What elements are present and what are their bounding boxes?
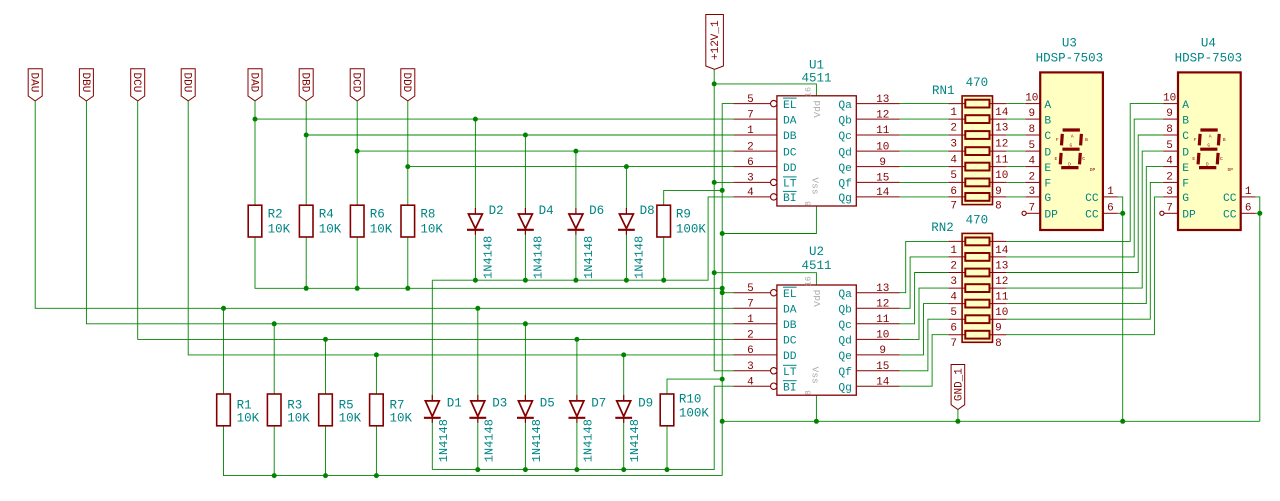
svg-text:A: A bbox=[1044, 100, 1051, 112]
svg-text:R7: R7 bbox=[390, 399, 405, 413]
wires RN2 to U4 bbox=[1006, 104, 1163, 335]
RN1 resistor element pins 2/13 bbox=[948, 115, 1008, 134]
svg-text:D: D bbox=[1182, 147, 1189, 159]
svg-text:5: 5 bbox=[747, 283, 754, 295]
svg-text:A: A bbox=[1071, 134, 1074, 140]
svg-text:Vss: Vss bbox=[809, 177, 820, 194]
svg-text:D2: D2 bbox=[489, 204, 504, 218]
diode D1 1N4148 bbox=[424, 395, 462, 462]
resistor R4 10K bbox=[299, 205, 341, 237]
resistor network RN1 470 bbox=[932, 76, 1009, 212]
svg-text:Qe: Qe bbox=[838, 351, 852, 363]
svg-text:1N4148: 1N4148 bbox=[581, 419, 595, 462]
svg-text:C: C bbox=[1044, 131, 1051, 143]
svg-text:DAD: DAD bbox=[247, 72, 259, 92]
resistor R1 10K bbox=[217, 394, 260, 426]
U4 pin 7 (DP) bbox=[1160, 202, 1196, 221]
svg-text:5: 5 bbox=[950, 170, 957, 182]
svg-text:7: 7 bbox=[950, 338, 957, 350]
svg-text:10: 10 bbox=[1025, 93, 1038, 105]
U1 pin 11 (Qc) bbox=[838, 125, 899, 143]
RN1 resistor element pins 7/8 bbox=[948, 193, 1006, 212]
U2 pin 4 (BI) bbox=[733, 376, 796, 394]
diode D7 1N4148 bbox=[569, 395, 607, 462]
svg-text:4: 4 bbox=[950, 155, 957, 167]
svg-text:9: 9 bbox=[995, 323, 1002, 335]
RN1 resistor element pins 6/9 bbox=[948, 179, 1006, 198]
global label DDD bbox=[400, 69, 415, 101]
svg-text:DP: DP bbox=[1044, 210, 1058, 222]
svg-text:16: 16 bbox=[804, 87, 814, 97]
svg-text:LT: LT bbox=[783, 367, 797, 379]
svg-text:6: 6 bbox=[1245, 202, 1252, 214]
wire net +12V bbox=[712, 69, 817, 370]
svg-text:8: 8 bbox=[995, 338, 1002, 350]
RN2 resistor element pins 2/13 bbox=[948, 253, 1008, 272]
svg-text:11: 11 bbox=[876, 125, 890, 137]
U4 pin 1 (CC) bbox=[1223, 186, 1256, 205]
U1 pin 10 (Qd) bbox=[838, 141, 899, 159]
RN1 resistor element pins 1/14 bbox=[948, 100, 1008, 119]
wire net DBU bbox=[86, 101, 733, 324]
svg-text:Qc: Qc bbox=[838, 131, 852, 143]
U2 pin 7 (DA) bbox=[733, 299, 796, 317]
svg-text:C: C bbox=[1220, 156, 1223, 162]
resistor R5 10K bbox=[319, 394, 362, 426]
svg-text:DP: DP bbox=[1182, 210, 1196, 222]
svg-text:1N4148: 1N4148 bbox=[482, 419, 496, 462]
U1 pin 3 (LT) bbox=[733, 173, 796, 191]
display U4 HDSP-7503 bbox=[1160, 37, 1256, 231]
svg-text:100K: 100K bbox=[676, 223, 707, 237]
RN2 resistor element pins 5/10 bbox=[948, 300, 1008, 319]
svg-text:9: 9 bbox=[879, 157, 886, 169]
U2 pin 5 (EL) bbox=[733, 283, 796, 301]
svg-text:U2: U2 bbox=[809, 245, 824, 259]
svg-text:15: 15 bbox=[876, 361, 889, 373]
svg-text:EL: EL bbox=[783, 289, 797, 301]
svg-text:D: D bbox=[1044, 147, 1051, 159]
resistor network RN2 470 bbox=[931, 214, 1008, 351]
RN2 resistor element pins 4/11 bbox=[948, 284, 1008, 303]
U3 pin 3 (G) bbox=[1025, 186, 1051, 205]
svg-text:Qa: Qa bbox=[838, 100, 852, 112]
svg-text:7: 7 bbox=[747, 109, 754, 121]
svg-text:6: 6 bbox=[950, 323, 957, 335]
svg-text:2: 2 bbox=[1166, 171, 1173, 183]
diode D3 1N4148 bbox=[469, 395, 507, 462]
diode D4 1N4148 bbox=[517, 204, 554, 279]
svg-text:D5: D5 bbox=[540, 397, 555, 411]
U3 pin 8 (C) bbox=[1025, 124, 1051, 143]
svg-text:4511: 4511 bbox=[801, 71, 831, 85]
U1 pin 2 (DC) bbox=[733, 141, 796, 159]
svg-text:C: C bbox=[1082, 156, 1085, 162]
svg-text:DCD: DCD bbox=[350, 72, 362, 92]
RN2 resistor element pins 1/14 bbox=[948, 238, 1008, 257]
U4 pin 5 (D) bbox=[1163, 140, 1189, 159]
svg-text:R2: R2 bbox=[268, 207, 283, 221]
svg-text:B: B bbox=[1223, 137, 1226, 143]
U1 pin 6 (DD) bbox=[733, 157, 796, 175]
svg-text:6: 6 bbox=[950, 186, 957, 198]
svg-text:Qd: Qd bbox=[838, 336, 852, 348]
global label DBU bbox=[79, 69, 94, 101]
wire U3 CC to GND bbox=[1118, 197, 1125, 421]
svg-text:DP: DP bbox=[1090, 167, 1096, 173]
wire U1 Vss to rail bbox=[722, 206, 816, 234]
display U3 HDSP-7503 bbox=[1022, 37, 1118, 231]
svg-text:GND_1: GND_1 bbox=[954, 368, 966, 401]
svg-text:G: G bbox=[1207, 142, 1210, 148]
svg-text:Qd: Qd bbox=[838, 147, 852, 159]
U4 7-segment digit bbox=[1192, 130, 1233, 173]
svg-text:8: 8 bbox=[995, 200, 1002, 212]
svg-text:G: G bbox=[1044, 193, 1051, 205]
svg-text:2: 2 bbox=[950, 123, 957, 135]
svg-text:F: F bbox=[1194, 137, 1197, 143]
svg-text:13: 13 bbox=[995, 123, 1008, 135]
svg-text:4511: 4511 bbox=[801, 259, 831, 273]
svg-text:1N4148: 1N4148 bbox=[632, 236, 646, 279]
global label DBD bbox=[299, 69, 314, 101]
wire U4 CC to GND bbox=[1256, 197, 1263, 421]
svg-text:Vss: Vss bbox=[809, 367, 820, 384]
wire net DCD bbox=[355, 101, 734, 206]
svg-text:C: C bbox=[1182, 131, 1189, 143]
svg-text:10K: 10K bbox=[237, 412, 260, 426]
svg-text:B: B bbox=[1044, 115, 1051, 127]
svg-text:G: G bbox=[1070, 142, 1073, 148]
svg-text:4: 4 bbox=[1028, 156, 1035, 168]
svg-text:15: 15 bbox=[876, 173, 889, 185]
svg-text:Vdd: Vdd bbox=[812, 100, 823, 117]
svg-text:4: 4 bbox=[747, 187, 754, 199]
svg-text:11: 11 bbox=[876, 314, 890, 326]
svg-text:8: 8 bbox=[1028, 124, 1035, 136]
svg-text:4: 4 bbox=[950, 292, 957, 304]
svg-text:R6: R6 bbox=[370, 207, 385, 221]
svg-text:2: 2 bbox=[747, 141, 754, 153]
svg-text:E: E bbox=[1055, 156, 1058, 162]
svg-text:4: 4 bbox=[1166, 156, 1173, 168]
svg-text:14: 14 bbox=[995, 245, 1009, 257]
svg-text:7: 7 bbox=[1028, 202, 1035, 214]
U4 pin 8 (C) bbox=[1163, 124, 1189, 143]
svg-text:7: 7 bbox=[1166, 202, 1173, 214]
U4 pin 10 (A) bbox=[1163, 93, 1189, 112]
svg-text:Qb: Qb bbox=[838, 305, 852, 317]
wires U1 outputs to RN1 bbox=[900, 104, 949, 197]
svg-text:D: D bbox=[1068, 161, 1071, 167]
svg-text:5: 5 bbox=[1028, 140, 1035, 152]
svg-text:LT: LT bbox=[783, 179, 797, 191]
wire R1/R3/R5/R7 tops bbox=[221, 306, 379, 394]
svg-text:11: 11 bbox=[995, 292, 1009, 304]
U2 pin 14 (Qg) bbox=[838, 376, 899, 394]
U2 pin 9 (Qe) bbox=[838, 345, 899, 363]
wire net DBD bbox=[304, 101, 734, 206]
svg-text:16: 16 bbox=[804, 276, 814, 286]
svg-text:DAU: DAU bbox=[28, 72, 40, 92]
svg-text:HDSP-7503: HDSP-7503 bbox=[1036, 52, 1104, 66]
diode D2 1N4148 bbox=[467, 204, 504, 279]
svg-text:A: A bbox=[1182, 100, 1189, 112]
svg-text:12: 12 bbox=[876, 109, 889, 121]
RN1 resistor element pins 3/12 bbox=[948, 131, 1008, 150]
svg-text:A: A bbox=[1209, 134, 1212, 140]
RN1 resistor element pins 4/11 bbox=[948, 147, 1008, 166]
RN2 resistor element pins 7/8 bbox=[948, 331, 1006, 350]
U3 pin 5 (D) bbox=[1025, 140, 1051, 159]
U3 pin 9 (B) bbox=[1025, 108, 1051, 127]
svg-text:DD: DD bbox=[783, 351, 797, 363]
wire GND net bbox=[722, 395, 1260, 424]
svg-text:5: 5 bbox=[950, 307, 957, 319]
svg-text:5: 5 bbox=[1166, 140, 1173, 152]
svg-text:G: G bbox=[1182, 193, 1189, 205]
svg-text:BI: BI bbox=[783, 193, 797, 205]
wire D1 column bbox=[431, 280, 433, 469]
U2 pin 10 (Qd) bbox=[838, 330, 899, 348]
svg-text:14: 14 bbox=[876, 187, 890, 199]
svg-text:DBD: DBD bbox=[299, 72, 311, 92]
resistor R10 100K bbox=[660, 393, 709, 426]
svg-text:3: 3 bbox=[1166, 186, 1173, 198]
svg-text:D9: D9 bbox=[638, 397, 653, 411]
svg-text:+12V_1: +12V_1 bbox=[710, 20, 722, 60]
svg-text:2: 2 bbox=[950, 260, 957, 272]
svg-text:4: 4 bbox=[747, 376, 754, 388]
svg-text:10K: 10K bbox=[370, 223, 393, 237]
resistor R8 10K bbox=[401, 205, 443, 237]
svg-text:6: 6 bbox=[747, 345, 754, 357]
svg-text:1N4148: 1N4148 bbox=[437, 419, 451, 462]
wire D2-D8 bottoms / U1 BI bbox=[432, 197, 733, 283]
U1 pin 12 (Qb) bbox=[838, 109, 899, 127]
U2 pin 13 (Qa) bbox=[838, 283, 899, 301]
wire R1-R7 bottoms rail bbox=[224, 426, 723, 478]
wire R10 top bbox=[667, 379, 722, 394]
svg-text:2: 2 bbox=[1028, 171, 1035, 183]
U3 pin 1 (CC) bbox=[1085, 186, 1118, 205]
U4 pin 6 (CC) bbox=[1223, 202, 1256, 221]
U4 pin 4 (E) bbox=[1163, 156, 1189, 175]
U3 pin 2 (F) bbox=[1025, 171, 1051, 190]
global label DAD bbox=[247, 69, 262, 101]
U2 pin 15 (Qf) bbox=[838, 361, 899, 379]
wire D2/D4/D6/D8 columns bbox=[475, 119, 626, 280]
wires RN1 to U3 bbox=[1006, 104, 1025, 197]
svg-text:DB: DB bbox=[783, 320, 797, 332]
svg-text:E: E bbox=[1044, 163, 1051, 175]
svg-text:9: 9 bbox=[1028, 108, 1035, 120]
svg-text:1: 1 bbox=[950, 107, 957, 119]
svg-text:10K: 10K bbox=[390, 412, 413, 426]
svg-text:7: 7 bbox=[950, 200, 957, 212]
global label DCD bbox=[350, 69, 365, 101]
power label GND_1 bbox=[951, 365, 965, 410]
svg-text:12: 12 bbox=[876, 299, 889, 311]
svg-text:F: F bbox=[1044, 179, 1051, 191]
svg-text:U4: U4 bbox=[1201, 37, 1216, 51]
U3 pin 4 (E) bbox=[1025, 156, 1051, 175]
global label DCU bbox=[130, 69, 145, 101]
svg-text:8: 8 bbox=[804, 390, 814, 395]
svg-text:D1: D1 bbox=[447, 397, 462, 411]
U3 pin 7 (DP) bbox=[1022, 202, 1058, 221]
diode D9 1N4148 bbox=[615, 395, 653, 462]
svg-text:DBU: DBU bbox=[79, 72, 91, 92]
svg-text:B: B bbox=[1182, 115, 1189, 127]
U1 pin 15 (Qf) bbox=[838, 173, 899, 191]
IC U1 4511 bbox=[733, 59, 899, 206]
wire net DCU bbox=[138, 101, 734, 340]
wire D3-D9 bottoms / U2 BI bbox=[432, 386, 733, 472]
svg-text:Qf: Qf bbox=[838, 179, 852, 191]
svg-text:3: 3 bbox=[747, 173, 754, 185]
svg-text:Qb: Qb bbox=[838, 115, 852, 127]
wire net EL/BI/VSS rail bbox=[720, 104, 734, 476]
svg-text:D8: D8 bbox=[640, 204, 655, 218]
svg-text:Qf: Qf bbox=[838, 367, 852, 379]
svg-text:14: 14 bbox=[876, 376, 890, 388]
svg-text:DD: DD bbox=[783, 163, 797, 175]
svg-text:Vdd: Vdd bbox=[812, 290, 823, 307]
svg-text:D4: D4 bbox=[539, 204, 554, 218]
svg-text:F: F bbox=[1056, 137, 1059, 143]
U1 pin 1 (DB) bbox=[733, 125, 796, 143]
svg-text:10K: 10K bbox=[268, 223, 291, 237]
U3 pin 6 (CC) bbox=[1085, 202, 1118, 221]
svg-text:10: 10 bbox=[995, 307, 1008, 319]
wire net DAD bbox=[253, 101, 734, 206]
RN2 resistor element pins 3/12 bbox=[948, 269, 1008, 288]
U4 pin 2 (F) bbox=[1163, 171, 1189, 190]
svg-text:1N4148: 1N4148 bbox=[531, 236, 545, 279]
global label DAU bbox=[28, 69, 43, 101]
svg-text:D3: D3 bbox=[492, 397, 507, 411]
svg-text:9: 9 bbox=[879, 345, 886, 357]
svg-text:HDSP-7503: HDSP-7503 bbox=[1175, 52, 1243, 66]
U2 pin 3 (LT) bbox=[733, 361, 796, 379]
svg-text:B: B bbox=[1085, 137, 1088, 143]
svg-text:F: F bbox=[1182, 179, 1189, 191]
svg-text:Qg: Qg bbox=[838, 193, 852, 205]
svg-text:RN1: RN1 bbox=[932, 84, 955, 98]
svg-text:1: 1 bbox=[1245, 186, 1252, 198]
svg-text:DCU: DCU bbox=[130, 72, 142, 92]
svg-text:12: 12 bbox=[995, 276, 1008, 288]
svg-text:DDU: DDU bbox=[181, 72, 193, 92]
svg-text:D: D bbox=[1206, 161, 1209, 167]
svg-text:R5: R5 bbox=[339, 399, 354, 413]
U2 pin 12 (Qb) bbox=[838, 299, 899, 317]
svg-text:8: 8 bbox=[804, 201, 814, 206]
svg-text:EL: EL bbox=[783, 100, 797, 112]
svg-text:R9: R9 bbox=[676, 207, 691, 221]
svg-text:10K: 10K bbox=[339, 412, 362, 426]
svg-text:11: 11 bbox=[995, 155, 1009, 167]
svg-text:CC: CC bbox=[1223, 193, 1237, 205]
U1 pin 7 (DA) bbox=[733, 109, 796, 127]
svg-text:1: 1 bbox=[950, 245, 957, 257]
RN1 resistor element pins 5/10 bbox=[948, 163, 1008, 182]
svg-text:10K: 10K bbox=[420, 223, 443, 237]
svg-text:E: E bbox=[1192, 156, 1195, 162]
svg-text:13: 13 bbox=[995, 260, 1008, 272]
resistor R9 100K bbox=[657, 205, 707, 237]
svg-text:1N4148: 1N4148 bbox=[582, 236, 596, 279]
svg-text:R8: R8 bbox=[420, 207, 435, 221]
svg-text:12: 12 bbox=[995, 139, 1008, 151]
resistor R2 10K bbox=[248, 205, 290, 237]
svg-text:5: 5 bbox=[747, 94, 754, 106]
U4 pin 9 (B) bbox=[1163, 108, 1189, 127]
svg-text:R4: R4 bbox=[319, 207, 334, 221]
wire net DDD bbox=[405, 101, 733, 206]
U1 pin 5 (EL) bbox=[733, 94, 796, 112]
svg-text:BI: BI bbox=[783, 382, 797, 394]
U3 7-segment digit bbox=[1055, 130, 1096, 173]
svg-text:R3: R3 bbox=[287, 399, 302, 413]
svg-text:10: 10 bbox=[876, 330, 889, 342]
svg-text:6: 6 bbox=[1107, 202, 1114, 214]
svg-text:10K: 10K bbox=[287, 412, 310, 426]
diode D8 1N4148 bbox=[618, 204, 655, 279]
svg-text:DC: DC bbox=[783, 147, 797, 159]
svg-text:R1: R1 bbox=[237, 399, 252, 413]
svg-text:13: 13 bbox=[876, 283, 889, 295]
svg-text:1: 1 bbox=[747, 314, 754, 326]
resistor R6 10K bbox=[350, 205, 392, 237]
IC U2 4511 bbox=[733, 245, 899, 395]
svg-text:10: 10 bbox=[876, 141, 889, 153]
diode D5 1N4148 bbox=[517, 395, 555, 462]
svg-text:1N4148: 1N4148 bbox=[481, 236, 495, 279]
U2 pin 1 (DB) bbox=[733, 314, 796, 332]
RN2 resistor element pins 6/9 bbox=[948, 315, 1006, 334]
svg-text:RN2: RN2 bbox=[931, 221, 954, 235]
svg-text:3: 3 bbox=[950, 139, 957, 151]
svg-text:1N4148: 1N4148 bbox=[628, 419, 642, 462]
svg-text:DB: DB bbox=[783, 131, 797, 143]
svg-text:1: 1 bbox=[1107, 186, 1114, 198]
svg-text:D6: D6 bbox=[589, 204, 604, 218]
wire D3/D5/D7/D9 columns bbox=[475, 306, 626, 470]
svg-text:DDD: DDD bbox=[400, 72, 412, 92]
U3 pin 10 (A) bbox=[1025, 93, 1051, 112]
U2 pin 11 (Qc) bbox=[838, 314, 899, 332]
svg-text:DP: DP bbox=[1228, 167, 1234, 173]
svg-text:9: 9 bbox=[995, 186, 1002, 198]
resistor R3 10K bbox=[267, 394, 310, 426]
svg-text:9: 9 bbox=[1166, 108, 1173, 120]
svg-text:DA: DA bbox=[783, 115, 797, 127]
svg-text:D7: D7 bbox=[591, 397, 606, 411]
U1 pin 14 (Qg) bbox=[838, 187, 899, 205]
wire R2-R8 bottoms bbox=[255, 237, 722, 291]
svg-text:100K: 100K bbox=[679, 406, 710, 420]
U2 pin 6 (DD) bbox=[733, 345, 796, 363]
wires U2 outputs to RN2 bbox=[900, 241, 949, 386]
power label +12V_1 bbox=[706, 15, 724, 70]
svg-text:10: 10 bbox=[995, 170, 1008, 182]
svg-text:CC: CC bbox=[1223, 210, 1237, 222]
svg-text:Qa: Qa bbox=[838, 289, 852, 301]
svg-text:1N4148: 1N4148 bbox=[530, 419, 544, 462]
svg-text:13: 13 bbox=[876, 94, 889, 106]
